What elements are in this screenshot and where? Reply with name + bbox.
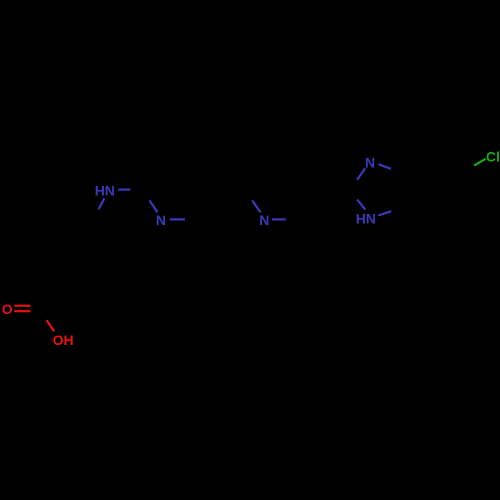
svg-text:Cl: Cl: [486, 149, 500, 165]
svg-text:HN: HN: [356, 210, 376, 226]
svg-text:OH: OH: [53, 332, 74, 348]
svg-text:N: N: [259, 212, 269, 228]
svg-text:O: O: [2, 301, 13, 317]
svg-text:HN: HN: [95, 182, 115, 198]
svg-text:N: N: [156, 212, 166, 228]
svg-text:N: N: [365, 155, 375, 171]
